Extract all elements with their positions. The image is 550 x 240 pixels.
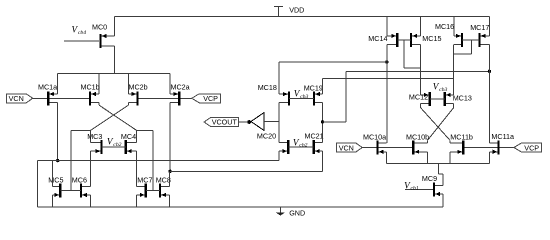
svg-text:MC11b: MC11b xyxy=(450,132,473,141)
svg-text:MC2a: MC2a xyxy=(171,82,190,91)
junction MC17 drain node xyxy=(488,70,491,73)
junction MC2a-MC21 wire xyxy=(168,170,171,173)
wire MC9 source to ground xyxy=(442,194,444,207)
wire Vcb4 gate line to MC0 xyxy=(64,40,99,42)
svg-text:MC17: MC17 xyxy=(470,23,489,32)
buffer bubble xyxy=(247,120,251,124)
transistor MC21 xyxy=(313,140,315,154)
svg-text:cb4: cb4 xyxy=(78,30,86,36)
wire MC16 gate tap xyxy=(471,40,473,54)
svg-text:MC7: MC7 xyxy=(137,175,152,184)
wire MC18 source to MC14 drain xyxy=(279,61,387,63)
wire MC8 source to ground xyxy=(169,195,171,207)
op-amp buffer triangle xyxy=(251,113,264,131)
transistor MC19 xyxy=(313,91,315,105)
junction MC14 drain node xyxy=(385,60,388,63)
wire MC6 source to ground xyxy=(90,195,92,207)
svg-text:MC18: MC18 xyxy=(258,83,277,92)
wire right pair source coupling xyxy=(387,163,490,165)
transistor MC15 xyxy=(410,33,412,47)
wire MC14 drain down to MC10a xyxy=(386,45,388,143)
wire MC15 source to VDD xyxy=(420,17,422,36)
ground rail GND xyxy=(38,206,444,208)
svg-text:MC16: MC16 xyxy=(435,22,454,31)
wire MC16 drain down to MC13 xyxy=(453,45,455,95)
transistor MC10b xyxy=(412,141,414,155)
svg-text:MC2b: MC2b xyxy=(129,82,148,91)
svg-text:MC11a: MC11a xyxy=(491,132,514,141)
wire MC9 drain from coupling line xyxy=(437,164,439,175)
wire VCN to MC1a MC1b gates xyxy=(33,97,89,99)
wire MC7 source to ground xyxy=(136,195,138,207)
transistor MC11a xyxy=(498,141,500,155)
svg-text:MC4: MC4 xyxy=(121,132,136,141)
svg-text:MC14: MC14 xyxy=(368,34,387,43)
svg-text:MC13: MC13 xyxy=(453,93,472,102)
wire MC7 MC8 gate link xyxy=(146,190,160,192)
wire MC2a source down xyxy=(169,103,171,172)
wire MC14 gate tap xyxy=(403,40,405,68)
svg-text:MC5: MC5 xyxy=(48,175,63,184)
transistor MC5 xyxy=(59,184,61,198)
wire MC13 drain cross to MC10b xyxy=(453,104,455,108)
output flag VCOUT xyxy=(204,118,239,127)
input flag VCN xyxy=(7,94,33,103)
wire X-node right branch xyxy=(137,129,153,131)
wire MC3 source down to MC6 drain xyxy=(90,151,92,186)
wire bias feedback line xyxy=(346,70,489,72)
wire MC18 source up xyxy=(278,62,280,94)
svg-text:VCOUT: VCOUT xyxy=(212,118,238,127)
VDD supply symbol xyxy=(278,6,280,16)
svg-text:cb3: cb3 xyxy=(300,94,308,100)
wire Vcb1 gate line to MC9 xyxy=(405,189,433,191)
wire MC14 source to VDD xyxy=(386,17,388,36)
transistor MC1b xyxy=(89,91,91,105)
input flag VCP right xyxy=(514,143,542,152)
wire X-node left branch xyxy=(71,129,91,131)
wire MC16 source to VDD xyxy=(453,17,455,36)
wire MC2b source cross-couple to MC3 xyxy=(127,103,129,106)
svg-text:MC10a: MC10a xyxy=(363,132,386,141)
wire MC12 drain cross to MC11b xyxy=(420,104,422,108)
wire MC11b source down xyxy=(449,152,451,164)
wire MC3 MC4 gate link Vcb2 xyxy=(102,146,126,148)
wire bus hook to MC20 source xyxy=(278,151,280,161)
wire MC18 MC19 gate link Vcb3 xyxy=(289,97,314,99)
wire MC8 drain up to junction xyxy=(169,171,171,186)
transistor MC3 xyxy=(100,140,102,154)
svg-text:MC10b: MC10b xyxy=(406,132,429,141)
wire MC4 source down to MC7 drain xyxy=(136,151,138,186)
wire MC16 MC17 gate link xyxy=(462,39,480,41)
wire riser MC1a drain xyxy=(57,73,59,94)
wire MC19 drain to MC21 drain xyxy=(322,103,324,143)
svg-text:MC6: MC6 xyxy=(72,175,87,184)
wire MC5 source to ground xyxy=(51,195,53,207)
transistor MC20 xyxy=(287,140,289,154)
wire MC20 MC21 gate link Vcb2 xyxy=(288,146,313,148)
svg-text:MC8: MC8 xyxy=(156,175,171,184)
input flag VCN right xyxy=(336,143,362,152)
svg-text:MC21: MC21 xyxy=(305,131,324,140)
transistor MC7 xyxy=(145,184,147,198)
svg-text:VCP: VCP xyxy=(524,143,539,152)
svg-text:MC19: MC19 xyxy=(304,84,323,93)
transistor MC9 xyxy=(433,183,435,197)
wire MC19 source to MC16 drain xyxy=(323,78,454,80)
transistor MC18 xyxy=(288,91,290,105)
wire right node branch xyxy=(323,121,347,123)
wire VCP to MC2a MC2b gates xyxy=(139,97,192,99)
wire MC0 source to VDD xyxy=(114,17,116,37)
junction cascode right node xyxy=(321,120,324,123)
svg-text:VCN: VCN xyxy=(9,94,24,103)
wire VCN to MC10a MC10b gates xyxy=(362,147,412,149)
svg-text:cb2: cb2 xyxy=(113,142,121,148)
transistor MC13 xyxy=(444,92,446,106)
wire MC17 source to VDD rail end xyxy=(488,17,490,36)
transistor MC17 xyxy=(478,33,480,47)
svg-text:MC1a: MC1a xyxy=(38,82,57,91)
svg-text:MC0: MC0 xyxy=(92,23,107,32)
wire MC14 MC15 gate link xyxy=(397,39,411,41)
wire MC10a source down xyxy=(386,152,388,164)
transistor MC1a xyxy=(47,91,49,105)
ground symbol xyxy=(279,207,281,213)
wire riser MC1b drain xyxy=(98,73,100,94)
wire buffer input from output node xyxy=(264,121,279,123)
wire output node MC18-MC20 xyxy=(278,103,280,143)
transistor MC16 xyxy=(461,33,463,47)
wire bus left end to ground rail xyxy=(37,161,39,207)
wire MC17 drain down to MC11a xyxy=(488,45,490,143)
wire riser MC2a drain xyxy=(169,73,171,94)
transistor MC12 xyxy=(429,92,431,106)
wire MC5 MC6 gate link xyxy=(60,190,81,192)
wire drain bus xyxy=(38,160,279,162)
transistor MC14 xyxy=(396,33,398,47)
wire left diff-pair top rail xyxy=(58,72,170,74)
transistor MC4 xyxy=(125,140,127,154)
svg-text:cb2: cb2 xyxy=(299,143,307,149)
wire MC12 MC13 gate link Vcb3 xyxy=(430,98,445,100)
svg-text:MC1b: MC1b xyxy=(81,82,100,91)
svg-text:MC12: MC12 xyxy=(409,93,428,102)
power rail VDD xyxy=(115,16,490,18)
wire VCP to MC11a MC11b gates xyxy=(465,147,514,149)
transistor MC2b xyxy=(136,91,138,105)
wire class-AB link to MC21 source xyxy=(170,170,323,172)
junction MC1a-bus xyxy=(56,159,59,162)
transistor MC8 xyxy=(159,184,161,198)
wire MC10b source down xyxy=(427,152,429,164)
input flag VCP left xyxy=(192,94,221,103)
svg-text:cb1: cb1 xyxy=(411,186,419,192)
transistor MC11b xyxy=(462,141,464,155)
wire MC1a source down to bus xyxy=(57,103,59,161)
wire riser MC2b drain xyxy=(127,73,129,94)
wire MC5 drain to bus xyxy=(51,161,53,187)
transistor MC6 xyxy=(80,184,82,198)
svg-text:MC3: MC3 xyxy=(87,132,102,141)
wire MC15 drain down to MC12 source xyxy=(420,45,422,95)
svg-text:VDD: VDD xyxy=(289,6,304,15)
wire MC0 drain down to diff pair xyxy=(114,46,116,73)
svg-text:MC15: MC15 xyxy=(422,34,441,43)
wire MC21 source down xyxy=(322,151,324,171)
transistor MC0 xyxy=(99,34,101,48)
svg-text:VCP: VCP xyxy=(203,94,218,103)
transistor MC10a xyxy=(376,141,378,155)
wire MC11a source down xyxy=(488,152,490,164)
svg-text:MC9: MC9 xyxy=(422,174,437,183)
svg-text:VCN: VCN xyxy=(339,143,354,152)
svg-text:MC20: MC20 xyxy=(257,131,276,140)
wire MC19 source up xyxy=(322,79,324,95)
wire VCOUT to buffer xyxy=(239,121,248,123)
transistor MC2a xyxy=(178,91,180,105)
svg-text:GND: GND xyxy=(289,209,305,218)
svg-text:cb3: cb3 xyxy=(439,87,447,93)
wire MC1b source cross-couple to MC4 xyxy=(98,103,100,106)
